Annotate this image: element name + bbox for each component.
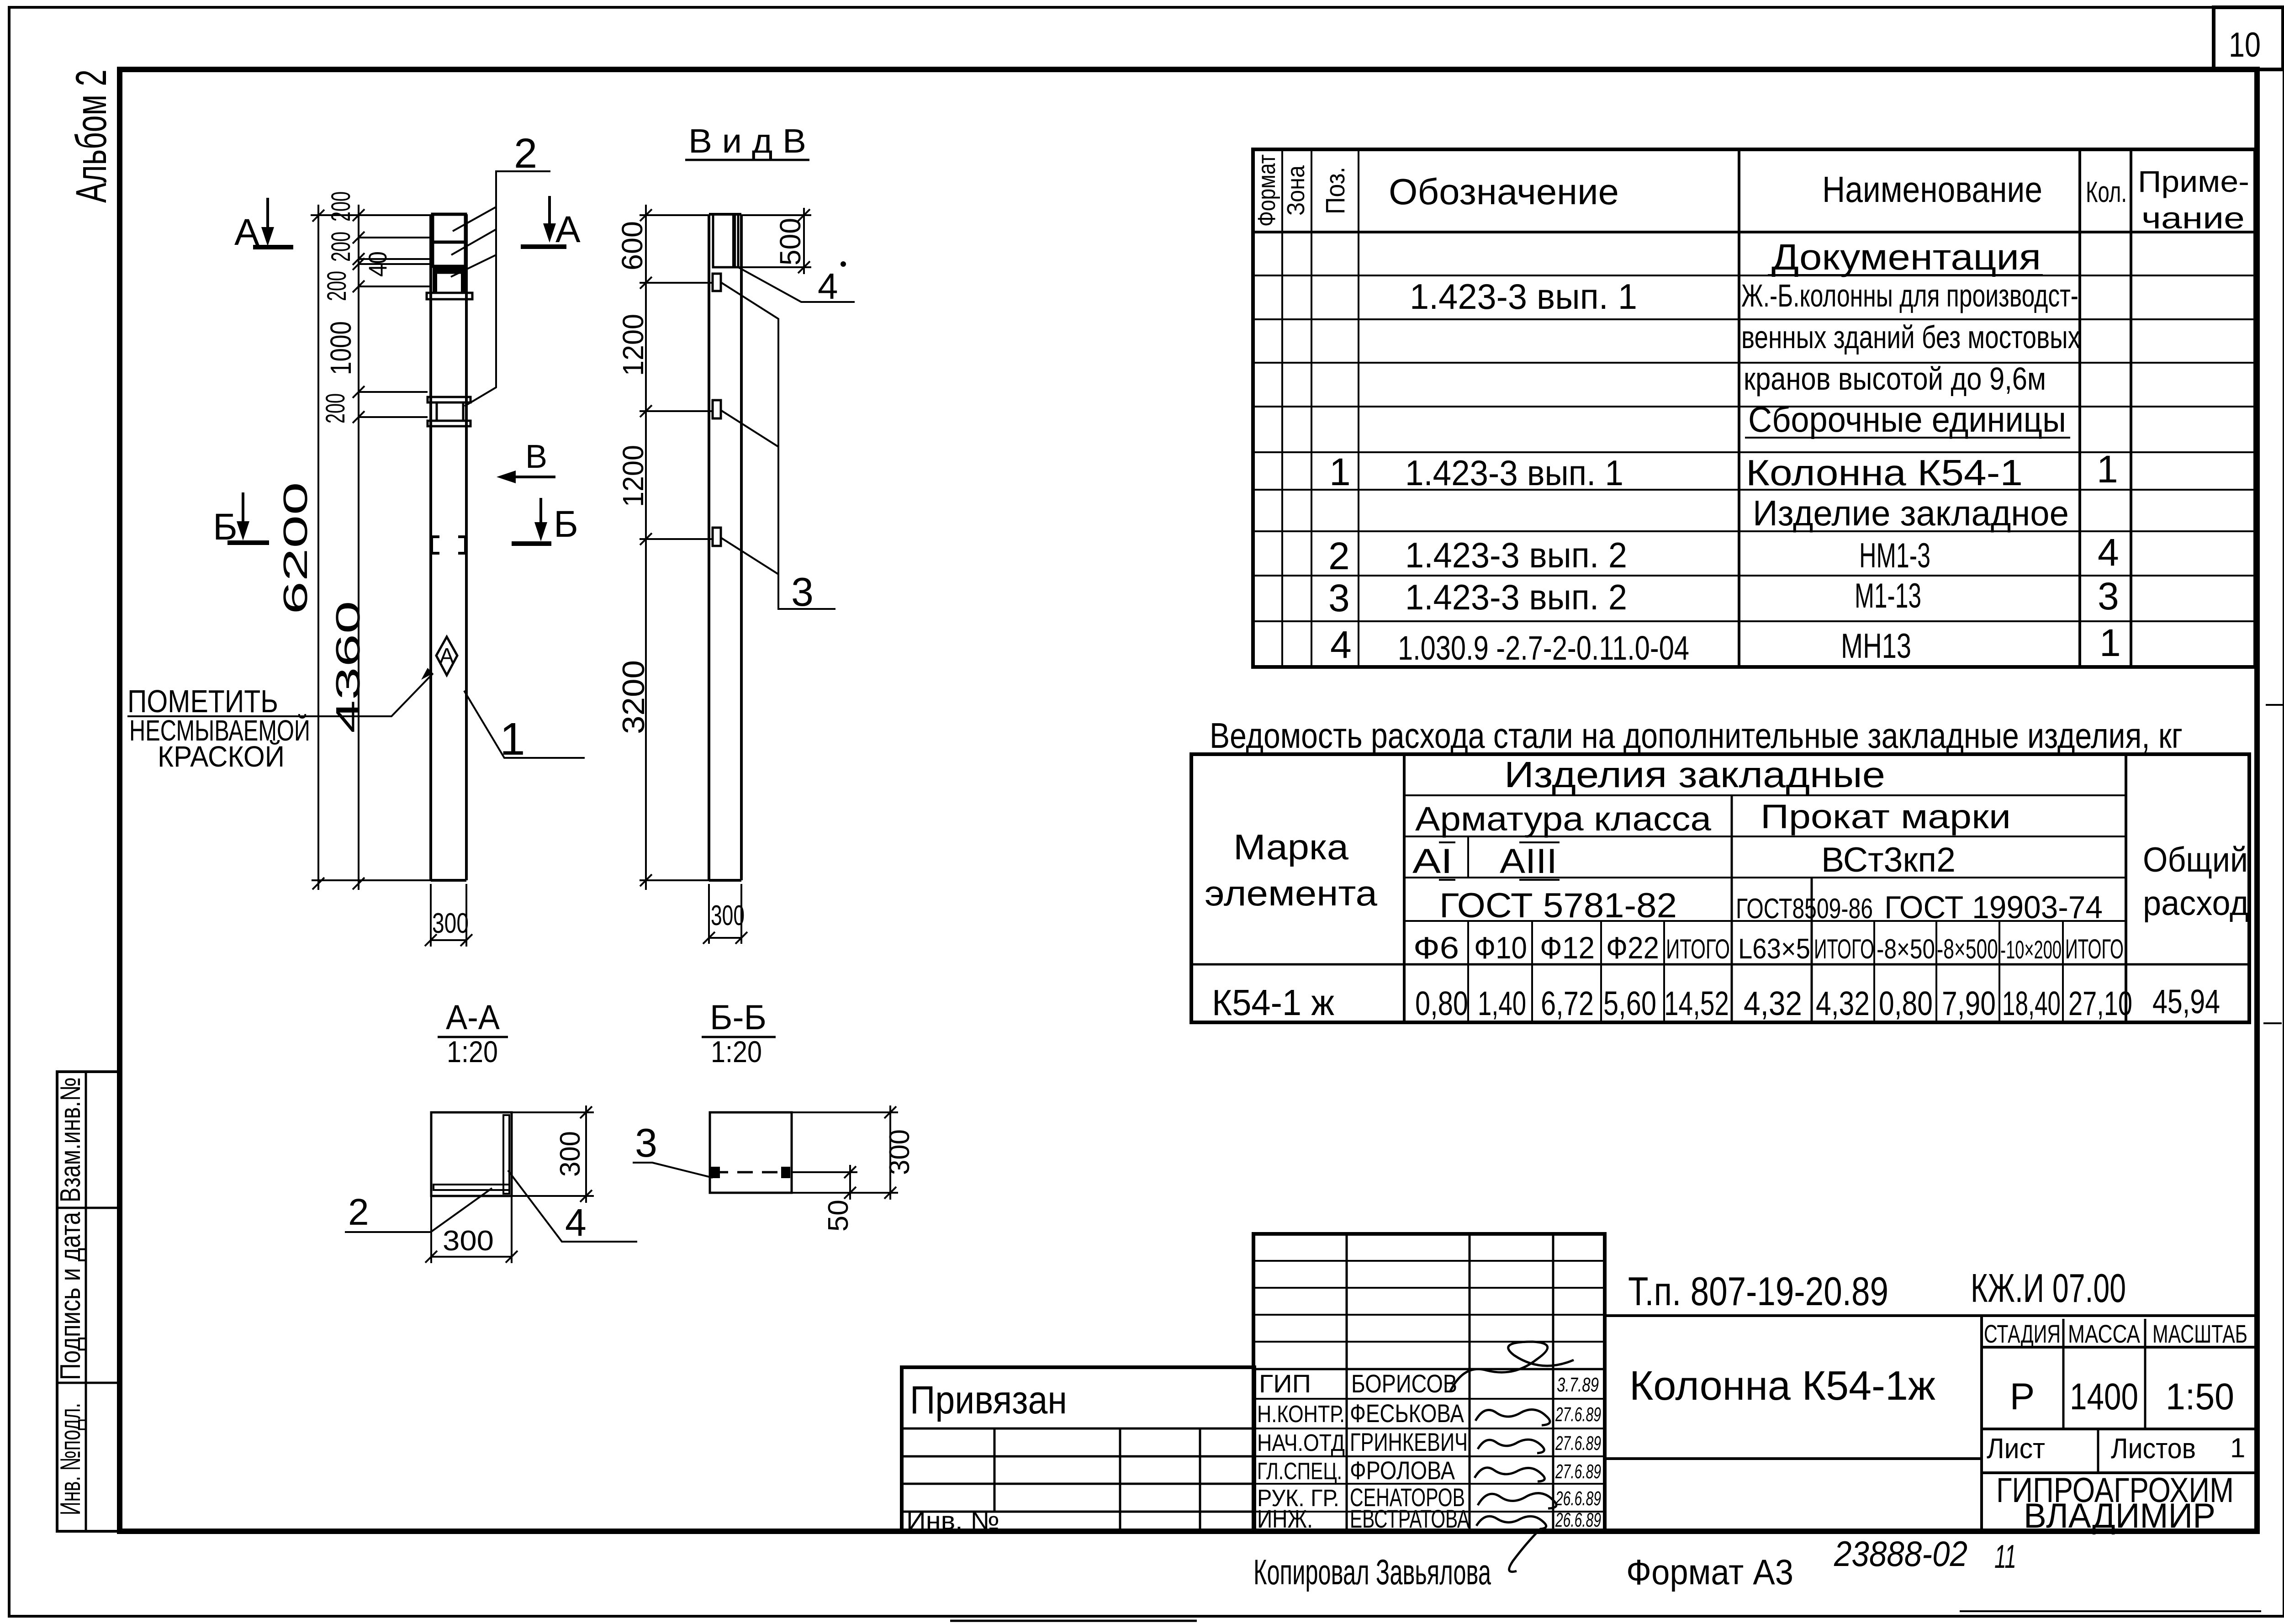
svg-text:Инв. №подл.: Инв. №подл. xyxy=(55,1403,86,1515)
second embed item 2 (y~870) xyxy=(428,397,471,426)
svg-text:Листов: Листов xyxy=(2111,1433,2196,1465)
svg-text:чание: чание xyxy=(2141,201,2245,235)
svg-text:Р: Р xyxy=(2010,1376,2035,1418)
svg-text:Н.КОНТР.: Н.КОНТР. xyxy=(1257,1401,1345,1428)
section A-A label 2 xyxy=(345,1188,492,1233)
svg-text:6,72: 6,72 xyxy=(1541,984,1594,1022)
svg-text:ГОСТ8509-86: ГОСТ8509-86 xyxy=(1736,893,1873,925)
svg-text:Формат: Формат xyxy=(1253,154,1280,227)
svg-text:Ф12: Ф12 xyxy=(1540,931,1595,965)
svg-text:2: 2 xyxy=(1328,534,1350,577)
svg-text:7,90: 7,90 xyxy=(1942,984,1996,1022)
view B extension lines xyxy=(640,215,713,880)
spec row: 1 Колонна К54-1 xyxy=(1329,448,2118,493)
svg-text:Изделие закладное: Изделие закладное xyxy=(1753,493,2069,533)
svg-text:В и д В: В и д В xyxy=(688,122,806,160)
svg-text:Зона: Зона xyxy=(1282,165,1310,216)
svg-text:НАЧ.ОТД: НАЧ.ОТД xyxy=(1257,1430,1345,1456)
spec table verticals xyxy=(1282,149,2131,667)
svg-text:0,80: 0,80 xyxy=(1415,984,1468,1022)
svg-text:Б: Б xyxy=(554,503,578,545)
section A-A plate item4 (right inner) xyxy=(503,1115,509,1194)
view B column outline xyxy=(709,214,741,880)
svg-text:1.423-3 вып. 2: 1.423-3 вып. 2 xyxy=(1405,577,1627,617)
svg-text:Взам.инв.№: Взам.инв.№ xyxy=(55,1077,86,1202)
view marker B(В) arrow xyxy=(497,439,555,483)
svg-text:А-А: А-А xyxy=(446,998,500,1037)
svg-text:К54-1 ж: К54-1 ж xyxy=(1212,982,1334,1023)
svg-text:Формат А3: Формат А3 xyxy=(1626,1552,1793,1592)
svg-text:БОРИСОВ: БОРИСОВ xyxy=(1351,1369,1457,1398)
view B small embeds item 3 xyxy=(713,274,721,291)
svg-text:600: 600 xyxy=(616,221,649,270)
vedomost data row xyxy=(1212,982,2220,1023)
svg-text:Подпись и дата: Подпись и дата xyxy=(55,1212,86,1380)
scan artifact marks right margin xyxy=(2263,705,2284,1023)
svg-text:3: 3 xyxy=(791,569,814,614)
svg-text:Инв. №: Инв. № xyxy=(906,1506,999,1535)
signature rows: dates xyxy=(1555,1374,1601,1531)
spec row: 1.423-3 вып.1 / Ж.-Б.колонны xyxy=(1410,276,2078,317)
svg-text:1.423-3 вып. 2: 1.423-3 вып. 2 xyxy=(1405,535,1627,575)
svg-text:ГОСТ 5781-82: ГОСТ 5781-82 xyxy=(1439,886,1677,925)
svg-text:-10×200: -10×200 xyxy=(2000,935,2062,964)
svg-text:Изделия закладные: Изделия закладные xyxy=(1504,754,1885,795)
svg-text:1: 1 xyxy=(1329,450,1351,493)
svg-text:200: 200 xyxy=(326,191,356,222)
paint mark rhombus with A xyxy=(436,637,457,675)
svg-text:Сборочные единицы: Сборочные единицы xyxy=(1748,399,2066,439)
svg-text:кранов высотой до 9,6м: кранов высотой до 9,6м xyxy=(1744,361,2046,397)
spec table outer xyxy=(1253,149,2255,667)
svg-text:26.6.89: 26.6.89 xyxy=(1555,1509,1601,1531)
svg-text:Поз.: Поз. xyxy=(1321,167,1350,214)
bottom margin: 23888-02 11 xyxy=(1834,1534,2016,1575)
spec header: Примечание xyxy=(2138,164,2249,235)
svg-text:0,80: 0,80 xyxy=(1879,984,1933,1022)
svg-text:В: В xyxy=(525,439,547,475)
svg-text:200: 200 xyxy=(326,232,356,262)
label 2 leader xyxy=(451,130,550,406)
svg-text:1200: 1200 xyxy=(617,314,650,376)
page number box xyxy=(2214,7,2283,69)
svg-text:3: 3 xyxy=(635,1120,657,1165)
spec row: 2 НМ1-3 xyxy=(1328,531,2119,577)
svg-text:300: 300 xyxy=(884,1129,915,1175)
extension lines left elevation xyxy=(311,215,431,880)
view B dim chain 600/1200/1200/3200 xyxy=(616,205,652,890)
svg-text:Колонна К54-1: Колонна К54-1 xyxy=(1746,452,2023,493)
svg-text:Документация: Документация xyxy=(1771,237,2041,277)
left stamp strip xyxy=(57,1072,120,1531)
stage headers xyxy=(1984,1319,2247,1348)
svg-text:КРАСКОЙ: КРАСКОЙ xyxy=(158,740,285,773)
org: ГИПРОАГРОХИМ ВЛАДИМИР xyxy=(1996,1471,2234,1535)
vedomost outer xyxy=(1191,754,2249,1022)
svg-text:Б: Б xyxy=(213,506,238,548)
stage values xyxy=(2010,1376,2234,1418)
svg-text:1: 1 xyxy=(2230,1433,2245,1463)
svg-text:ГОСТ 19903-74: ГОСТ 19903-74 xyxy=(1884,889,2103,925)
svg-text:1: 1 xyxy=(2099,621,2121,664)
svg-text:АI: АI xyxy=(1412,842,1453,881)
svg-text:-8×50: -8×50 xyxy=(1877,934,1935,964)
svg-text:Наименование: Наименование xyxy=(1822,169,2042,210)
embedded channel item 2 box B xyxy=(433,242,465,266)
svg-text:Ведомость расхода стали на доп: Ведомость расхода стали на дополнительны… xyxy=(1210,715,2183,756)
svg-text:А: А xyxy=(439,644,454,668)
bottom dim 300 left elevation xyxy=(425,884,472,947)
svg-text:4: 4 xyxy=(2098,531,2119,574)
svg-text:-8×500: -8×500 xyxy=(1937,934,1998,964)
section A-A plate item2 (bottom inner) xyxy=(434,1185,509,1190)
svg-text:200: 200 xyxy=(321,393,350,423)
signature scribbles xyxy=(1450,1342,1574,1572)
svg-text:300: 300 xyxy=(443,1225,494,1257)
label 4 leader (view B) xyxy=(738,261,855,307)
view B dim 500 top right xyxy=(738,208,811,274)
section A-A label 4 xyxy=(508,1170,637,1244)
title area lines xyxy=(1605,1316,2255,1531)
svg-text:3200: 3200 xyxy=(616,660,651,734)
svg-text:НМ1-3: НМ1-3 xyxy=(1859,536,1930,575)
embed flange bar xyxy=(427,293,472,299)
svg-text:1000: 1000 xyxy=(324,321,357,375)
svg-text:1400: 1400 xyxy=(2070,1376,2138,1418)
svg-text:МАСШТАБ: МАСШТАБ xyxy=(2152,1319,2247,1348)
svg-text:МАССА: МАССА xyxy=(2068,1319,2141,1348)
svg-text:11: 11 xyxy=(1994,1539,2016,1575)
vedomost horizontals xyxy=(1191,795,2249,964)
signature table grid xyxy=(1253,1234,1605,1531)
spec row: 3 М1-13 xyxy=(1328,575,2119,619)
svg-text:23888-02: 23888-02 xyxy=(1834,1534,1967,1574)
dim line 200-chain / 4360 xyxy=(321,191,392,890)
view title: Вид В xyxy=(685,122,809,160)
embedded channel item 2 (top) box A xyxy=(433,214,465,242)
svg-text:Колонна К54-1ж: Колонна К54-1ж xyxy=(1629,1363,1935,1409)
svg-text:ГРИНКЕВИЧ: ГРИНКЕВИЧ xyxy=(1350,1428,1468,1456)
svg-text:4,32: 4,32 xyxy=(1744,984,1802,1022)
svg-text:расход: расход xyxy=(2143,884,2249,923)
svg-text:27.6.89: 27.6.89 xyxy=(1555,1432,1601,1455)
svg-text:26.6.89: 26.6.89 xyxy=(1555,1487,1601,1510)
svg-text:27.6.89: 27.6.89 xyxy=(1555,1403,1601,1426)
svg-text:27,10: 27,10 xyxy=(2068,984,2132,1022)
svg-text:Ф10: Ф10 xyxy=(1474,931,1527,965)
section marker B(Б) right xyxy=(512,498,578,545)
svg-text:СТАДИЯ: СТАДИЯ xyxy=(1984,1319,2061,1348)
svg-text:1200: 1200 xyxy=(617,445,650,507)
svg-text:Б-Б: Б-Б xyxy=(710,998,767,1037)
svg-text:ИТОГО: ИТОГО xyxy=(2065,934,2124,964)
svg-text:1: 1 xyxy=(2097,448,2118,491)
svg-text:6200: 6200 xyxy=(276,482,314,614)
svg-text:5,60: 5,60 xyxy=(1603,984,1656,1022)
svg-text:Кол.: Кол. xyxy=(2086,175,2127,208)
svg-text:4: 4 xyxy=(818,266,838,307)
signature rows: names xyxy=(1350,1369,1470,1533)
svg-text:ФЕСЬКОВА: ФЕСЬКОВА xyxy=(1350,1399,1465,1428)
svg-text:1.423-3 вып. 1: 1.423-3 вып. 1 xyxy=(1405,453,1623,493)
svg-text:ГИП: ГИП xyxy=(1259,1369,1311,1398)
dim line 6200 xyxy=(276,205,324,890)
svg-text:Арматура класса: Арматура класса xyxy=(1415,800,1712,838)
svg-text:венных зданий без мостовых: венных зданий без мостовых xyxy=(1741,319,2080,355)
svg-text:200: 200 xyxy=(322,271,352,301)
svg-text:Альбом 2: Альбом 2 xyxy=(67,69,116,203)
vedomost: Марка элемента xyxy=(1205,827,1378,913)
section marker B(Б) left xyxy=(213,492,269,548)
svg-text:Т.п. 807-19-20.89: Т.п. 807-19-20.89 xyxy=(1628,1269,1888,1314)
svg-text:ИТОГО: ИТОГО xyxy=(1666,934,1730,964)
svg-text:4: 4 xyxy=(1330,623,1352,666)
svg-text:КЖ.И 07.00: КЖ.И 07.00 xyxy=(1971,1265,2126,1311)
svg-text:А: А xyxy=(234,212,259,253)
svg-text:Марка: Марка xyxy=(1233,827,1349,867)
section B-B dim 300 right xyxy=(792,1106,915,1200)
svg-text:Общий: Общий xyxy=(2143,841,2248,879)
spec row: Документация xyxy=(1768,237,2043,277)
section B-B end plates xyxy=(711,1167,720,1178)
note text: Пометить несмываемой краской xyxy=(127,683,310,773)
svg-text:4360: 4360 xyxy=(329,601,367,733)
vedomost: diameters row xyxy=(1413,931,2124,965)
svg-text:Ф6: Ф6 xyxy=(1413,931,1459,965)
section marker A right xyxy=(521,196,581,250)
svg-text:2: 2 xyxy=(348,1191,369,1233)
svg-text:МН13: МН13 xyxy=(1841,627,1911,666)
svg-text:Ж.-Б.колонны для производст-: Ж.-Б.колонны для производст- xyxy=(1741,278,2078,313)
vedomost: A I xyxy=(1412,842,1455,881)
embed thick band xyxy=(433,266,465,273)
embed box C xyxy=(435,273,463,293)
svg-text:ВЛАДИМИР: ВЛАДИМИР xyxy=(2024,1497,2215,1535)
spec row: Сборочные единицы xyxy=(1745,399,2070,439)
leader from note to rhombus xyxy=(127,668,433,716)
svg-text:ВСт3кп2: ВСт3кп2 xyxy=(1821,841,1956,879)
svg-text:ГЛ.СПЕЦ.: ГЛ.СПЕЦ. xyxy=(1257,1458,1342,1485)
section A-A dim 300 bottom xyxy=(425,1196,518,1263)
signature rows: roles xyxy=(1257,1369,1345,1533)
svg-text:А: А xyxy=(555,209,581,250)
section B-B dashed plate line xyxy=(713,1171,789,1174)
svg-text:2: 2 xyxy=(514,130,537,177)
section B-B title xyxy=(702,998,776,1069)
svg-text:ИНЖ.: ИНЖ. xyxy=(1257,1504,1313,1533)
svg-text:1:50: 1:50 xyxy=(2166,1376,2234,1418)
label 3 leader (view B) xyxy=(721,282,835,614)
svg-text:ИТОГО: ИТОГО xyxy=(1814,934,1874,964)
svg-text:ЕВСТРАТОВА: ЕВСТРАТОВА xyxy=(1350,1504,1470,1533)
svg-text:3: 3 xyxy=(1328,577,1350,619)
svg-text:Обозначение: Обозначение xyxy=(1389,171,1619,212)
spec table row lines xyxy=(1253,275,2255,621)
svg-text:300: 300 xyxy=(711,900,745,931)
svg-text:Прокат марки: Прокат марки xyxy=(1761,798,2011,836)
svg-text:L63×5: L63×5 xyxy=(1738,933,1810,965)
svg-text:1.423-3 вып. 1: 1.423-3 вып. 1 xyxy=(1410,276,1637,317)
svg-text:3: 3 xyxy=(2098,575,2119,618)
svg-text:4: 4 xyxy=(565,1201,587,1244)
svg-text:1:20: 1:20 xyxy=(711,1035,762,1069)
svg-text:Приме-: Приме- xyxy=(2138,164,2249,198)
svg-text:300: 300 xyxy=(555,1131,586,1177)
view B bottom dim 300 xyxy=(703,884,747,944)
svg-text:Копировал Завьялова: Копировал Завьялова xyxy=(1253,1552,1491,1592)
svg-text:АIII: АIII xyxy=(1500,842,1557,881)
section A-A title xyxy=(438,998,508,1069)
svg-text:ФРОЛОВА: ФРОЛОВА xyxy=(1350,1456,1455,1485)
privyazan block xyxy=(902,1367,1254,1535)
vedomost: Общий расход xyxy=(2143,841,2249,923)
section B-B cut marks on shaft xyxy=(432,537,465,553)
vedomost: A III xyxy=(1500,842,1560,881)
svg-text:М1-13: М1-13 xyxy=(1855,577,1921,615)
column shaft outline xyxy=(431,214,466,880)
spec table header separator xyxy=(1253,231,2255,233)
view B top embed MH13 item 4 xyxy=(713,215,738,267)
svg-text:500: 500 xyxy=(774,218,807,265)
svg-text:1.030.9 -2.7-2-0.11.0-04: 1.030.9 -2.7-2-0.11.0-04 xyxy=(1398,629,1689,667)
svg-text:3.7.89: 3.7.89 xyxy=(1557,1374,1599,1396)
svg-text:300: 300 xyxy=(432,908,469,939)
section B-B label 3 xyxy=(633,1120,713,1178)
section marker A left xyxy=(234,198,293,253)
sheet row: Лист / Листов 1 xyxy=(1987,1433,2245,1465)
label 1 leader xyxy=(464,691,585,765)
spec row: 4 МН13 xyxy=(1330,621,2121,667)
svg-text:4,32: 4,32 xyxy=(1816,984,1870,1022)
svg-text:1:20: 1:20 xyxy=(447,1035,498,1069)
svg-text:элемента: элемента xyxy=(1205,873,1378,913)
svg-text:Привязан: Привязан xyxy=(910,1378,1067,1422)
vedomost verticals xyxy=(1404,754,2126,1022)
svg-text:Ф22: Ф22 xyxy=(1606,931,1659,965)
section A-A dim 300 right xyxy=(512,1106,594,1203)
svg-text:18,40: 18,40 xyxy=(2002,984,2061,1022)
svg-text:1,40: 1,40 xyxy=(1478,984,1526,1022)
svg-text:10: 10 xyxy=(2229,26,2261,64)
svg-text:45,94: 45,94 xyxy=(2152,983,2220,1021)
section B-B square xyxy=(710,1112,792,1193)
svg-text:50: 50 xyxy=(823,1200,854,1232)
section A-A square xyxy=(431,1112,512,1196)
section B-B dim 50 xyxy=(792,1165,857,1232)
scan artifact dashes bottom xyxy=(950,1611,2261,1621)
svg-text:Лист: Лист xyxy=(1987,1433,2045,1465)
svg-text:14,52: 14,52 xyxy=(1664,984,1729,1022)
svg-text:1: 1 xyxy=(500,714,525,765)
svg-text:27.6.89: 27.6.89 xyxy=(1555,1460,1601,1483)
